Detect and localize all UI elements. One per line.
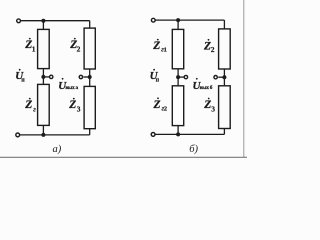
wire: circuit b left branch mid lead bbox=[177, 69, 179, 86]
terminal: circuit a input top bbox=[17, 19, 21, 23]
terminal: circuit b input top bbox=[151, 18, 155, 22]
terminal: circuit b output right bbox=[214, 76, 217, 79]
label Up (a) bbox=[15, 69, 25, 84]
junction: circuit b right mid node bbox=[222, 75, 226, 79]
wire: circuit b right branch bottom lead bbox=[223, 129, 225, 135]
wire: circuit a left mid stub to terminal bbox=[43, 76, 49, 78]
terminal: circuit b output left bbox=[184, 75, 187, 78]
junction: circuit a right mid node bbox=[88, 75, 92, 79]
impedance Zg1 bbox=[172, 29, 183, 68]
impedance Z1 bbox=[38, 29, 50, 68]
svg-text:п: п bbox=[21, 77, 25, 83]
terminal: circuit a output left bbox=[50, 75, 53, 78]
impedance Zg (a) bbox=[38, 84, 50, 125]
wire: circuit a right mid stub to terminal bbox=[84, 76, 90, 78]
label Zg (a) bbox=[24, 98, 36, 114]
svg-text:Z: Z bbox=[68, 99, 76, 111]
wire: circuit b left mid stub to terminal bbox=[178, 76, 184, 78]
svg-text:2: 2 bbox=[77, 45, 81, 54]
label Uout b bbox=[193, 78, 213, 92]
junction: circuit a bottom node bbox=[41, 133, 45, 137]
junction: circuit a left mid node bbox=[41, 75, 45, 79]
svg-text:2: 2 bbox=[164, 105, 167, 112]
label Z1 bbox=[24, 38, 36, 54]
wire: circuit a right branch top corner drop bbox=[89, 21, 91, 28]
svg-text:Z: Z bbox=[203, 99, 211, 111]
junction: circuit b top node bbox=[176, 18, 180, 22]
wire: circuit a right branch mid lead bbox=[89, 69, 91, 86]
wire: circuit a left branch mid lead bbox=[42, 69, 44, 85]
wire: circuit b left branch bottom lead bbox=[177, 126, 179, 135]
wire: circuit b right mid stub to terminal bbox=[218, 76, 224, 78]
svg-text:3: 3 bbox=[211, 105, 215, 114]
wire: circuit b bottom bus bbox=[155, 133, 224, 135]
svg-text:г: г bbox=[33, 105, 36, 113]
svg-text:б): б) bbox=[189, 144, 198, 155]
svg-text:Z: Z bbox=[153, 99, 161, 111]
junction: circuit a top node bbox=[41, 19, 45, 23]
svg-text:вых а: вых а bbox=[65, 85, 78, 91]
terminal: circuit a input bottom bbox=[16, 133, 20, 137]
svg-text:а): а) bbox=[53, 144, 62, 155]
label Uout a bbox=[58, 78, 78, 92]
junction: circuit b left mid node bbox=[176, 75, 180, 79]
svg-text:Z: Z bbox=[152, 40, 160, 52]
wire: circuit b top bus bbox=[156, 19, 225, 21]
svg-text:1: 1 bbox=[32, 45, 36, 54]
junction: circuit b bottom node bbox=[176, 132, 180, 136]
wire: circuit a left branch Z1 top lead bbox=[42, 21, 44, 30]
terminal: circuit b input bottom bbox=[151, 133, 155, 137]
label Z3 (b) bbox=[203, 98, 215, 114]
page rule horizontal (scan edge) bbox=[0, 156, 247, 158]
label Zg2 bbox=[153, 97, 168, 112]
svg-text:Z: Z bbox=[24, 99, 32, 111]
terminal: circuit a output right bbox=[79, 75, 82, 78]
impedance Z2 (b) bbox=[219, 29, 231, 69]
impedance Z3 (b) bbox=[219, 86, 231, 129]
impedance Zg2 bbox=[172, 86, 183, 126]
label Up (b) bbox=[150, 69, 160, 84]
impedance Z3 (a) bbox=[84, 86, 95, 128]
wire: circuit a left branch bottom lead bbox=[42, 125, 44, 134]
svg-text:вых б: вых б bbox=[200, 84, 213, 91]
label Z2 (a) bbox=[69, 38, 80, 54]
label Z2 (b) bbox=[203, 39, 215, 54]
svg-text:п: п bbox=[156, 77, 160, 83]
wire: circuit b right branch mid lead bbox=[223, 69, 225, 86]
svg-text:3: 3 bbox=[77, 105, 81, 114]
page rule vertical (scan edge) bbox=[243, 0, 245, 157]
wire: circuit b left branch Zg1 top lead bbox=[177, 20, 179, 29]
svg-text:1: 1 bbox=[164, 47, 167, 54]
wire: circuit a right branch bottom lead bbox=[89, 129, 91, 135]
svg-text:2: 2 bbox=[211, 45, 215, 54]
wire: circuit a bottom bus bbox=[20, 134, 90, 136]
label Zg1 bbox=[152, 39, 167, 54]
wire: circuit b right branch top corner drop bbox=[223, 20, 225, 29]
label Z3 (a) bbox=[68, 98, 81, 114]
impedance Z2 (a) bbox=[84, 28, 95, 69]
wire: circuit a top bus bbox=[21, 20, 90, 22]
